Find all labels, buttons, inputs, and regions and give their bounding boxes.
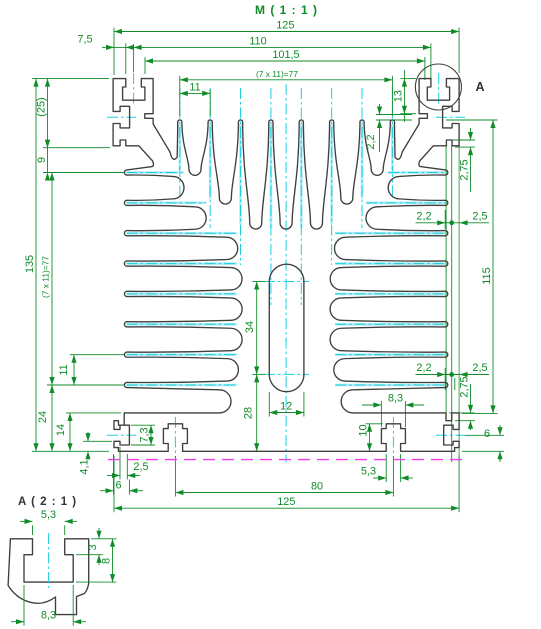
- dim 2,75 right upper: [449, 139, 475, 141]
- heatsink profile outline: [113, 79, 459, 452]
- centerline right base T-slot: [436, 434, 465, 436]
- dim 4,1 left: [83, 440, 112, 442]
- dim 115 right: [446, 119, 498, 121]
- svg-text:2,75: 2,75: [459, 376, 471, 397]
- svg-text:A ( 2 : 1 ): A ( 2 : 1 ): [18, 496, 77, 508]
- svg-text:11: 11: [189, 81, 200, 93]
- dim 7,3 left base slot: [131, 424, 155, 426]
- centerline top-left T-slot: [133, 73, 135, 104]
- dim 2,5 right upper: [458, 145, 460, 462]
- svg-text:(25): (25): [36, 97, 48, 116]
- dim 28 center: [256, 374, 258, 451]
- svg-text:A: A: [476, 80, 485, 94]
- svg-text:2,5: 2,5: [133, 461, 148, 473]
- svg-text:80: 80: [311, 480, 323, 492]
- dim 13 top right: [400, 78, 416, 80]
- dim (7x11)=77 left: [51, 173, 53, 386]
- dim 80 bottom: [174, 456, 176, 497]
- svg-text:2,2: 2,2: [416, 210, 431, 222]
- svg-text:5,3: 5,3: [361, 466, 376, 478]
- svg-text:9: 9: [36, 157, 48, 163]
- svg-text:14: 14: [55, 424, 67, 436]
- centerline top-right T-slot: [438, 73, 440, 104]
- dim 12 oval width: [268, 392, 270, 417]
- dim 2,5 bottom left: [119, 447, 121, 480]
- dim 8,3 detail: [23, 585, 25, 626]
- dim 2,2 top fin thickness: [376, 114, 412, 116]
- centerline right side T-slot: [436, 116, 465, 118]
- svg-text:8,3: 8,3: [388, 392, 403, 404]
- central oval hole: [269, 264, 304, 392]
- svg-text:(7 x 11)=77: (7 x 11)=77: [41, 256, 51, 298]
- svg-text:11: 11: [58, 364, 70, 375]
- centerline left side T-slot: [107, 116, 136, 118]
- svg-text:2,5: 2,5: [472, 210, 487, 222]
- dim 6 bottom left: [113, 454, 115, 495]
- dim 11 left: [70, 354, 124, 356]
- dim 3 detail: [91, 538, 103, 540]
- dim 8,3 bottom right channel: [380, 401, 382, 427]
- svg-text:4,1: 4,1: [79, 459, 91, 474]
- svg-text:110: 110: [249, 35, 266, 47]
- svg-text:135: 135: [24, 255, 36, 273]
- svg-text:5,3: 5,3: [41, 509, 56, 521]
- dim 34 center: [253, 281, 266, 283]
- centerline left bottom channel: [174, 417, 176, 457]
- dim 6 right: [465, 434, 504, 436]
- dim 9 left: [43, 172, 124, 174]
- svg-text:6: 6: [115, 479, 121, 491]
- svg-text:125: 125: [276, 20, 294, 32]
- svg-text:(7 x 11)=77: (7 x 11)=77: [256, 69, 298, 79]
- dim 101,5 top: [144, 57, 146, 74]
- svg-text:8,3: 8,3: [41, 610, 56, 622]
- dim 7,5 top: [106, 45, 114, 50]
- svg-text:13: 13: [393, 90, 405, 102]
- dim 2,75 right lower: [449, 412, 475, 414]
- svg-text:7,5: 7,5: [77, 34, 92, 46]
- svg-text:34: 34: [244, 321, 256, 333]
- svg-text:125: 125: [277, 496, 295, 508]
- dim 135 left: [32, 78, 109, 80]
- dim 2,5 right lower: [454, 378, 456, 390]
- dim 5,3 bottom right channel: [385, 454, 387, 482]
- svg-text:2,2: 2,2: [416, 362, 431, 374]
- detail A profile: [8, 539, 89, 615]
- centerline vertical main axis: [285, 84, 287, 462]
- centerline left base T-slot: [107, 434, 136, 436]
- centerlines right fins: [388, 171, 446, 174]
- svg-text:12: 12: [280, 400, 292, 412]
- dim 125 top: [113, 28, 115, 76]
- svg-text:28: 28: [242, 407, 254, 419]
- dim (7x11)=77 top: [179, 76, 181, 116]
- svg-text:6: 6: [484, 428, 490, 440]
- dim 2,2 right upper: [444, 210, 446, 229]
- dim 24 left: [51, 385, 53, 451]
- dim 125 bottom: [113, 456, 115, 512]
- dim 10 bottom right channel: [366, 423, 384, 425]
- svg-text:7,3: 7,3: [138, 427, 150, 442]
- svg-text:M ( 1 : 1 ): M ( 1 : 1 ): [255, 3, 318, 17]
- centerline oval horizontal top: [264, 281, 309, 283]
- dim 14 left: [66, 412, 121, 414]
- dim 110 top: [125, 43, 127, 74]
- centerlines left fins: [127, 171, 185, 174]
- centerlines top fins: [179, 124, 182, 170]
- detail A centerline: [48, 533, 50, 588]
- dim (25) left: [43, 147, 110, 149]
- centerline right bottom channel: [392, 417, 394, 457]
- svg-text:3: 3: [87, 544, 99, 550]
- dim 2,2 right lower: [444, 368, 446, 390]
- svg-text:10: 10: [358, 424, 370, 436]
- svg-text:101,5: 101,5: [272, 49, 299, 61]
- dim 8 detail: [76, 581, 117, 583]
- svg-text:115: 115: [481, 267, 493, 284]
- magenta reference dashed line: [108, 459, 466, 461]
- detail circle A: [415, 64, 461, 110]
- dim 5,3 detail: [32, 525, 34, 535]
- svg-text:2,75: 2,75: [459, 159, 471, 180]
- dim 11 top: [209, 89, 211, 116]
- svg-text:8: 8: [100, 558, 112, 564]
- svg-text:2,5: 2,5: [472, 362, 487, 374]
- centerline oval horizontal bottom: [264, 373, 309, 375]
- svg-text:24: 24: [37, 411, 49, 423]
